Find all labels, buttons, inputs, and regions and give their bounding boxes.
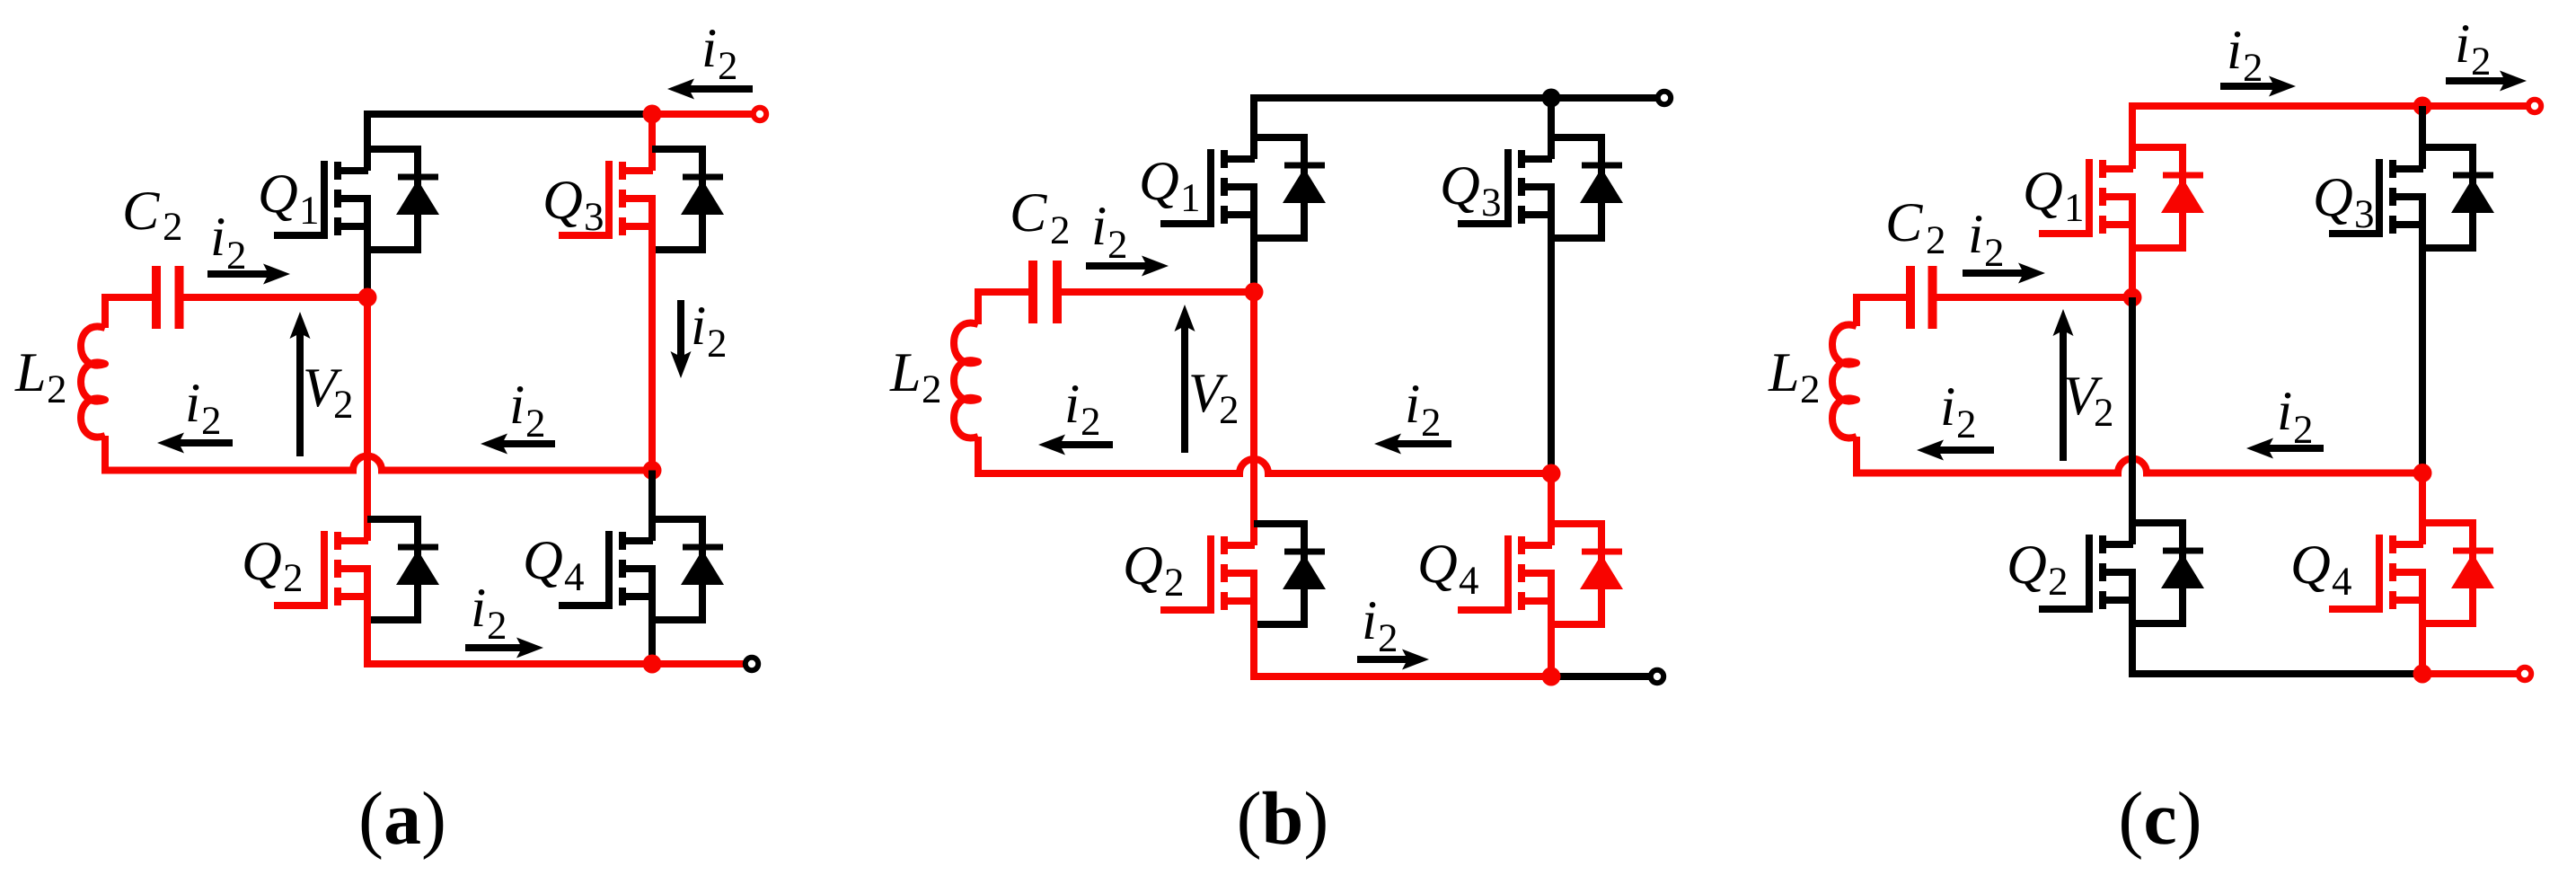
svg-text:i: i xyxy=(471,578,486,639)
label i2 top-right panel (c) xyxy=(2455,13,2492,84)
svg-text:Q: Q xyxy=(258,164,298,225)
arrow i2 at C2 panel (b) xyxy=(1086,256,1169,277)
svg-text:4: 4 xyxy=(1459,558,1479,603)
svg-text:i: i xyxy=(2277,381,2292,442)
wire: panel (b) Q3 drain xyxy=(1548,98,1555,159)
svg-text:Q: Q xyxy=(1123,535,1163,597)
arrow i2 top-right panel (a) xyxy=(667,79,753,100)
svg-text:Q: Q xyxy=(1440,155,1480,217)
svg-text:2: 2 xyxy=(525,401,546,446)
svg-text:2: 2 xyxy=(922,367,942,411)
svg-text:2: 2 xyxy=(1050,208,1071,252)
capacitor C2 (panel a) xyxy=(156,266,180,329)
label i2 left branch panel (c) xyxy=(1940,376,1977,446)
wire: panel (b) Q3 source to node B xyxy=(1548,187,1555,473)
arrow i2 bottom panel (a) xyxy=(465,638,543,659)
svg-text:i: i xyxy=(1968,204,1983,265)
svg-text:i: i xyxy=(691,296,706,357)
label Q4 (panel c) xyxy=(2290,535,2352,604)
svg-text:Q: Q xyxy=(1139,151,1179,212)
svg-text:2: 2 xyxy=(47,367,67,411)
wire: panel (c) Q4 source xyxy=(2419,572,2426,674)
wire: panel (c) left leg upper xyxy=(1853,297,1860,326)
node: panel (b) top-right junction xyxy=(1542,89,1561,108)
node A junction panel (c) xyxy=(2123,288,2142,307)
wire: panel (c) mid rail with hop xyxy=(1853,459,2422,473)
wire: panel (a) Q4 source xyxy=(648,569,656,664)
svg-text:C: C xyxy=(1885,192,1923,253)
svg-text:2: 2 xyxy=(333,382,354,427)
transistor Q4 (panel c) xyxy=(2329,523,2494,623)
terminal: panel (a) top output port xyxy=(754,108,766,120)
svg-text:4: 4 xyxy=(2332,559,2352,604)
svg-text:2: 2 xyxy=(2094,390,2114,435)
svg-text:3: 3 xyxy=(2354,191,2375,236)
transistor Q1 (panel b) xyxy=(1160,137,1326,238)
wire: panel (b) left leg upper xyxy=(975,292,982,324)
transistor Q1 (panel c) xyxy=(2039,147,2204,248)
arrow i2 mid-right panel (c) xyxy=(2246,438,2324,459)
svg-text:2: 2 xyxy=(1164,560,1185,605)
wire: panel (c) Q3 source to node B xyxy=(2419,197,2426,473)
wire: panel (a) node A to Q2 drain xyxy=(364,297,371,541)
node B junction panel (c) xyxy=(2413,464,2432,482)
node: panel (c) top-right junction xyxy=(2413,97,2432,116)
svg-text:i: i xyxy=(1362,590,1377,651)
wire: panel (c) C2 left lead xyxy=(1853,294,1907,301)
arrow i2 on top rail panel (c) xyxy=(2220,76,2296,97)
transistor Q4 (panel b) xyxy=(1458,524,1623,624)
label Q1 (panel c) xyxy=(2023,161,2085,230)
label i2 left branch panel (a) xyxy=(185,373,222,443)
wire: panel (c) top rail xyxy=(2132,102,2422,110)
svg-text:L: L xyxy=(14,342,46,403)
inductor L2 (panel c) xyxy=(1832,325,1857,438)
label i2 bottom panel (b) xyxy=(1362,590,1398,660)
wire: panel (a) Q1 source to node A xyxy=(364,199,371,297)
terminal: panel (a) bottom output port xyxy=(745,658,758,670)
svg-text:3: 3 xyxy=(1481,180,1502,225)
wire: panel (a) Q1 drain xyxy=(364,114,371,171)
wire: panel (b) bottom rail xyxy=(1250,673,1551,680)
wire: panel (b) C2 right lead to node A xyxy=(1061,288,1254,296)
arrow i2 through Q3 panel (a) xyxy=(671,300,692,378)
label L2 (panel b) xyxy=(889,342,942,411)
label C2 (panel a) xyxy=(122,181,183,249)
wire: panel (c) Q2 source xyxy=(2129,572,2136,677)
svg-text:2: 2 xyxy=(707,321,728,366)
transistor Q3 (panel c) xyxy=(2329,147,2494,248)
svg-text:2: 2 xyxy=(2471,39,2492,84)
svg-text:i: i xyxy=(1940,376,1955,438)
svg-text:Q: Q xyxy=(2023,161,2063,222)
arrow i2 at C2 panel (c) xyxy=(1963,263,2045,284)
svg-text:i: i xyxy=(1064,374,1080,435)
wire: panel (c) bottom terminal lead xyxy=(2422,670,2517,677)
wire: panel (b) C2 left lead xyxy=(975,288,1029,296)
svg-text:L: L xyxy=(889,342,921,403)
label Q2 (panel b) xyxy=(1123,535,1185,605)
arrow i2 left branch panel (a) xyxy=(157,433,233,454)
svg-text:2: 2 xyxy=(1378,615,1398,660)
wire: panel (a) Q3 source to node B xyxy=(648,199,656,471)
wire: panel (c) Q3 drain xyxy=(2419,106,2426,169)
transistor Q2 (panel a) xyxy=(274,519,439,620)
label C2 (panel c) xyxy=(1885,192,1946,262)
svg-text:2: 2 xyxy=(2048,559,2069,604)
caption (a) xyxy=(358,777,446,861)
label Q4 (panel b) xyxy=(1417,534,1479,603)
svg-text:2: 2 xyxy=(1956,402,1977,446)
label Q2 (panel c) xyxy=(2007,535,2069,604)
wire: panel (a) Q3 drain xyxy=(648,114,656,171)
label i2 mid-right panel (b) xyxy=(1405,374,1442,445)
svg-text:i: i xyxy=(210,207,225,268)
svg-text:2: 2 xyxy=(1800,367,1821,411)
arrow i2 top-right panel (c) xyxy=(2446,71,2527,92)
svg-text:Q: Q xyxy=(543,170,583,231)
svg-text:(a): (a) xyxy=(358,777,446,861)
wire: panel (c) node B to Q4 drain xyxy=(2419,473,2426,545)
wire: panel (c) bottom rail xyxy=(2129,670,2422,677)
capacitor C2 (panel b) xyxy=(1033,261,1057,323)
wire: panel (c) node A to Q2 drain xyxy=(2129,297,2136,544)
svg-text:(b): (b) xyxy=(1237,777,1329,861)
label i2 mid-right panel (c) xyxy=(2277,381,2314,452)
terminal: panel (b) top output port xyxy=(1658,92,1671,104)
transistor Q3 (panel a) xyxy=(559,149,724,250)
node B junction panel (b) xyxy=(1542,464,1561,483)
svg-text:Q: Q xyxy=(2007,535,2047,596)
svg-text:i: i xyxy=(509,375,525,436)
label i2 left branch panel (b) xyxy=(1064,374,1101,444)
label Q2 (panel a) xyxy=(242,531,304,600)
svg-text:2: 2 xyxy=(163,204,183,249)
svg-text:Q: Q xyxy=(2290,535,2331,596)
label i2 top-right panel (a) xyxy=(701,18,738,88)
label i2 beside Q3 panel (a) xyxy=(691,296,728,366)
wire: panel (a) top terminal lead xyxy=(652,110,752,118)
node: panel (b) bottom-right junction xyxy=(1542,667,1561,686)
svg-text:2: 2 xyxy=(1984,230,2005,275)
wire: panel (b) top rail xyxy=(1254,94,1551,102)
wire: panel (b) Q2 source xyxy=(1250,573,1257,680)
transistor Q2 (panel c) xyxy=(2039,523,2204,623)
svg-text:C: C xyxy=(122,181,160,242)
wire: panel (c) C2 right lead to node A xyxy=(1936,294,2133,301)
label C2 (panel b) xyxy=(1010,182,1071,252)
svg-text:2: 2 xyxy=(2293,407,2314,452)
wire: panel (b) top terminal lead xyxy=(1551,94,1656,102)
svg-text:i: i xyxy=(1091,196,1107,257)
svg-text:2: 2 xyxy=(1107,222,1128,267)
capacitor C2 (panel c) xyxy=(1910,266,1933,329)
transistor Q3 (panel b) xyxy=(1458,137,1623,238)
wire: panel (b) mid rail with hop xyxy=(975,459,1551,473)
label Q3 (panel b) xyxy=(1440,155,1502,225)
label i2 bottom panel (a) xyxy=(471,578,507,648)
inductor L2 (panel a) xyxy=(81,326,105,437)
arrow V2 panel (c) xyxy=(2053,309,2074,461)
wire: panel (a) bottom terminal lead xyxy=(652,660,744,667)
node: panel (a) top-right junction xyxy=(643,105,662,124)
svg-text:1: 1 xyxy=(2064,185,2085,230)
svg-text:1: 1 xyxy=(299,188,320,233)
arrow V2 panel (b) xyxy=(1175,305,1195,453)
terminal: panel (c) top output port xyxy=(2528,100,2541,112)
transistor Q2 (panel b) xyxy=(1160,524,1326,624)
svg-text:i: i xyxy=(2455,13,2470,75)
wire: panel (a) C2 left lead xyxy=(101,294,153,301)
wire: panel (b) bottom terminal lead xyxy=(1551,673,1649,680)
arrow i2 bottom panel (b) xyxy=(1357,650,1429,670)
svg-text:2: 2 xyxy=(1926,217,1946,262)
wire: panel (a) Q2 source xyxy=(364,569,371,667)
wire: panel (a) top rail xyxy=(367,110,652,118)
wire: panel (a) C2 right lead to node A xyxy=(183,294,368,301)
node A junction panel (b) xyxy=(1245,283,1264,302)
svg-text:2: 2 xyxy=(1421,400,1442,445)
label i2 mid-right panel (a) xyxy=(509,375,546,446)
svg-text:2: 2 xyxy=(283,555,304,600)
svg-text:4: 4 xyxy=(564,554,585,599)
label i2 at C2 panel (a) xyxy=(210,207,247,278)
wire: panel (b) node B to Q4 drain xyxy=(1548,473,1555,545)
wire: panel (a) bottom rail xyxy=(364,660,652,667)
svg-text:i: i xyxy=(701,18,717,79)
inductor L2 (panel b) xyxy=(954,323,978,438)
svg-text:2: 2 xyxy=(226,233,247,278)
svg-text:Q: Q xyxy=(1417,534,1458,595)
label V2 panel (a) xyxy=(303,358,354,427)
label Q1 (panel a) xyxy=(258,164,320,233)
label i2 on top rail panel (c) xyxy=(2227,20,2263,90)
svg-text:i: i xyxy=(1405,374,1420,435)
wire: panel (b) Q1 source to node A xyxy=(1250,187,1257,292)
label Q3 (panel a) xyxy=(543,170,604,239)
svg-text:3: 3 xyxy=(584,194,604,239)
svg-text:2: 2 xyxy=(1219,387,1239,432)
svg-text:Q: Q xyxy=(523,530,563,591)
svg-text:i: i xyxy=(2227,20,2242,81)
arrow i2 left branch panel (c) xyxy=(1917,440,1994,461)
arrow i2 left branch panel (b) xyxy=(1038,435,1113,455)
label L2 (panel c) xyxy=(1768,342,1821,411)
caption (b) xyxy=(1237,777,1329,861)
wire: panel (b) Q4 source xyxy=(1548,573,1555,676)
wire: panel (a) left leg upper xyxy=(101,297,109,328)
svg-text:Q: Q xyxy=(2313,167,2353,228)
wire: panel (a) left leg lower xyxy=(101,436,109,471)
arrow i2 at C2 panel (a) xyxy=(207,264,290,285)
wire: panel (b) node A to Q2 drain xyxy=(1250,292,1257,545)
svg-text:i: i xyxy=(185,373,200,434)
svg-text:1: 1 xyxy=(1180,175,1201,220)
node: panel (a) bottom-right junction xyxy=(643,655,662,674)
wire: panel (c) Q1 drain xyxy=(2129,106,2136,169)
svg-text:2: 2 xyxy=(718,43,738,88)
svg-text:C: C xyxy=(1010,182,1047,243)
transistor Q4 (panel a) xyxy=(559,519,724,620)
svg-text:Q: Q xyxy=(242,531,282,592)
svg-text:2: 2 xyxy=(1081,399,1101,444)
arrow V2 panel (a) xyxy=(290,312,311,456)
node A junction panel (a) xyxy=(358,288,377,307)
svg-text:(c): (c) xyxy=(2118,777,2201,861)
wire: panel (b) Q1 drain xyxy=(1250,98,1257,159)
terminal: panel (b) bottom output port xyxy=(1651,670,1663,683)
arrow i2 mid-right panel (a) xyxy=(481,434,555,455)
wire: panel (a) mid rail with hop xyxy=(101,456,652,471)
wire: panel (c) top terminal lead xyxy=(2422,102,2527,110)
transistor Q1 (panel a) xyxy=(274,149,439,250)
terminal: panel (c) bottom output port xyxy=(2519,667,2531,680)
svg-text:2: 2 xyxy=(2243,45,2263,90)
wire: panel (b) left leg lower xyxy=(975,437,982,473)
svg-text:2: 2 xyxy=(201,398,222,443)
wire: panel (c) Q1 source to node A xyxy=(2129,197,2136,297)
svg-text:L: L xyxy=(1768,342,1799,403)
label Q4 (panel a) xyxy=(523,530,585,599)
label V2 panel (b) xyxy=(1188,363,1239,432)
label i2 at C2 panel (c) xyxy=(1968,204,2005,275)
label V2 panel (c) xyxy=(2063,366,2114,435)
wire: panel (a) node B to Q4 drain xyxy=(648,471,656,542)
label Q3 (panel c) xyxy=(2313,167,2375,236)
wire: panel (c) left leg lower xyxy=(1853,437,1860,473)
node: panel (c) bottom-right junction xyxy=(2413,665,2432,684)
label L2 (panel a) xyxy=(14,342,67,411)
caption (c) xyxy=(2118,777,2201,861)
svg-text:2: 2 xyxy=(487,603,507,648)
label Q1 (panel b) xyxy=(1139,151,1201,220)
node B junction panel (a) xyxy=(643,461,662,480)
label i2 at C2 panel (b) xyxy=(1091,196,1128,267)
arrow i2 mid-right panel (b) xyxy=(1374,434,1451,455)
